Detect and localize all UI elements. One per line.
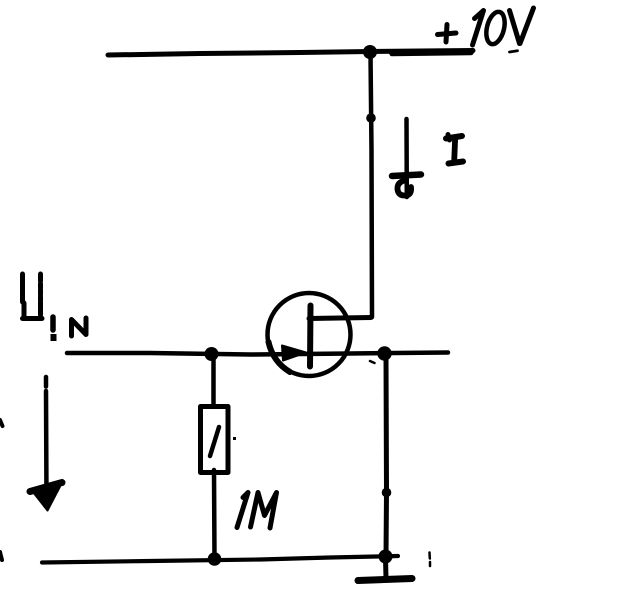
current arrow I : stem: [404, 119, 409, 197]
label 1M : letter M: [251, 493, 277, 529]
label U_IN : subscript N: [72, 318, 87, 336]
label 1M : digit 1: [237, 493, 248, 528]
label +10V : digit 0: [483, 10, 507, 46]
wire: +10V top supply rail: [108, 51, 473, 56]
label +10V : plus sign: [438, 25, 457, 43]
scan speck left edge lower: [0, 552, 2, 560]
label +10V : digit 1: [473, 11, 484, 46]
junction dot on source wire: [382, 488, 392, 498]
node: gate / resistor junction: [205, 347, 219, 361]
transistor Q1 : channel bar: [307, 306, 314, 367]
label U_IN : subscript I (exclamation style): [50, 317, 56, 330]
arrow for U_IN : head: [30, 483, 62, 492]
node: source junction on gate line: [377, 346, 391, 360]
label +10V : letter V: [510, 8, 534, 44]
wire: drain vertical from top rail down to transistor: [371, 54, 373, 317]
label U_IN : letter U: [23, 274, 43, 319]
node: ground rail right junction: [379, 550, 393, 564]
ground symbol : bar: [358, 579, 412, 581]
resistor R1 body: [201, 407, 229, 473]
wire: top rail overdraw right segment: [392, 53, 471, 54]
wire: source junction down to ground rail: [384, 356, 390, 556]
scan speck left edge upper: [0, 420, 3, 426]
junction dot on drain wire: [366, 113, 376, 123]
small tick below source junction: [370, 361, 375, 363]
label +10V : small dash under V: [510, 51, 518, 52]
ground symbol : stub: [383, 558, 389, 578]
label I (current): [446, 135, 463, 164]
current arrow I : scribbled loop head: [397, 181, 411, 196]
transistor Q1 : gate arrowhead: [282, 346, 306, 361]
node: drain junction on top rail: [363, 45, 377, 59]
tick mark right of ground rail: [428, 553, 431, 559]
wire: resistor bottom to ground rail: [212, 470, 217, 559]
transistor Q1 : drain lead elbow: [309, 318, 371, 319]
wire: junction down to resistor R1: [211, 354, 216, 406]
node: resistor / ground rail junction: [208, 552, 222, 566]
transistor Q1 (JFET) : body circle: [268, 293, 351, 376]
small dot right of resistor: [233, 437, 236, 440]
current arrow I : head bar: [392, 175, 421, 177]
arrow for U_IN : stem: [44, 377, 49, 387]
wire: bottom ground rail: [42, 556, 398, 563]
wire: input / gate horizontal line: [67, 353, 448, 355]
resistor R1 : slash mark inside: [210, 427, 219, 456]
